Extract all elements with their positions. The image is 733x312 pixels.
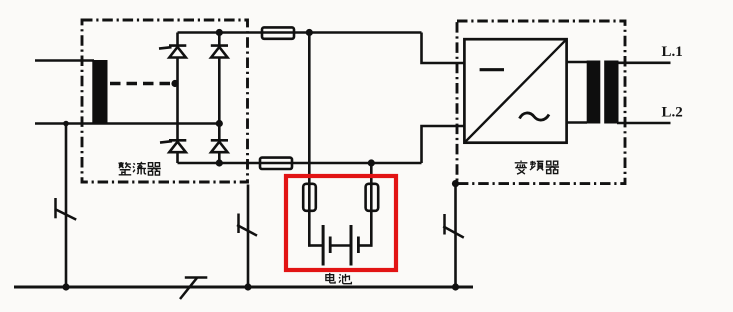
node: mid bus x right column xyxy=(216,120,223,127)
node: top bus x battery riser xyxy=(306,29,313,36)
wire: output line L2 xyxy=(617,122,671,125)
node: earth bus x middle branch xyxy=(244,283,251,290)
wire: AC input top xyxy=(35,59,94,62)
red highlight box (battery) xyxy=(286,176,396,270)
wire: DC- bus xyxy=(178,162,422,165)
node: AC bottom wire x left branch xyxy=(63,121,69,127)
svg-text:L.1: L.1 xyxy=(662,44,683,60)
wire: DC- rise to inverter xyxy=(422,126,466,163)
thyristor V1 (top-left) xyxy=(159,46,186,58)
output transformer T2 core bar 1 xyxy=(587,61,601,124)
node: dashed tap on left column xyxy=(171,80,178,87)
wire: earth branch left xyxy=(65,124,68,288)
wire: inverter to output transformer top xyxy=(567,61,588,64)
node: earth bus x left branch xyxy=(62,283,69,290)
isolator Q4 (on earth bus) xyxy=(180,278,207,300)
wire: DC+ drop to inverter xyxy=(422,33,466,64)
isolator Q2 (middle branch) xyxy=(237,214,257,236)
svg-text:L.2: L.2 xyxy=(662,105,683,121)
wire: DC+ bus xyxy=(178,31,422,34)
label 整流器 (rectifier) xyxy=(118,162,160,175)
node: bottom bridge bus x right column xyxy=(216,159,223,166)
inverter AC symbol (tilde) xyxy=(520,113,550,120)
wire: battery right riser xyxy=(370,163,373,247)
inverter diagonal xyxy=(464,39,566,143)
wire: battery right stub xyxy=(360,244,373,247)
battery GB: cell 2 negative plate xyxy=(357,237,360,254)
output transformer T2 core bar 2 xyxy=(604,61,618,124)
battery GB: cell 1 negative plate xyxy=(329,237,332,254)
label 电池 (battery) xyxy=(326,273,351,284)
wire: left bridge column xyxy=(176,33,179,164)
label 变频器 (inverter) xyxy=(515,161,559,175)
rectifier enclosure (dash-dot box) xyxy=(82,20,248,182)
wire: earth branch middle xyxy=(247,185,250,288)
node: DC- bus x battery right riser xyxy=(368,159,375,166)
wire: inverter to output transformer bottom xyxy=(567,121,588,124)
wire: battery inter-cell link xyxy=(331,244,351,247)
fuse F3 (battery left) xyxy=(303,184,316,211)
fuse F2 (DC- bus) xyxy=(260,158,292,169)
node: earth bus x right branch xyxy=(452,283,459,290)
wire (dashed): transformer tap to bridge xyxy=(110,82,172,86)
thyristor V3 (bottom-left) xyxy=(160,140,186,152)
transformer T1 (input, solid core bar) xyxy=(92,60,107,124)
wire: AC input bottom / bridge mid bus xyxy=(35,122,220,125)
node: inverter box corner xyxy=(452,180,459,187)
wire: battery left riser xyxy=(308,33,311,247)
diode V2 (top-right) xyxy=(211,46,228,58)
diode V4 (bottom-right) xyxy=(211,140,228,152)
fuse F1 (DC+ bus) xyxy=(262,27,294,38)
wire: bottom earth bus xyxy=(14,286,473,289)
node: top bus x right column xyxy=(216,29,223,36)
wire: output line L1 xyxy=(617,61,671,64)
battery GB: cell 2 positive plate xyxy=(350,225,353,266)
inverter DC symbol (minus) xyxy=(480,68,504,71)
wire: earth branch right xyxy=(454,184,457,287)
battery GB: cell 1 positive plate xyxy=(322,225,325,266)
inverter block U1 xyxy=(464,39,566,143)
isolator Q3 (right branch) xyxy=(443,214,464,238)
wire: battery left stub xyxy=(308,244,322,247)
wire: right bridge column xyxy=(218,33,221,164)
inverter enclosure (dash-dot box) xyxy=(457,21,625,184)
isolator Q1 (left branch) xyxy=(55,198,76,220)
fuse F4 (battery right) xyxy=(366,184,379,211)
